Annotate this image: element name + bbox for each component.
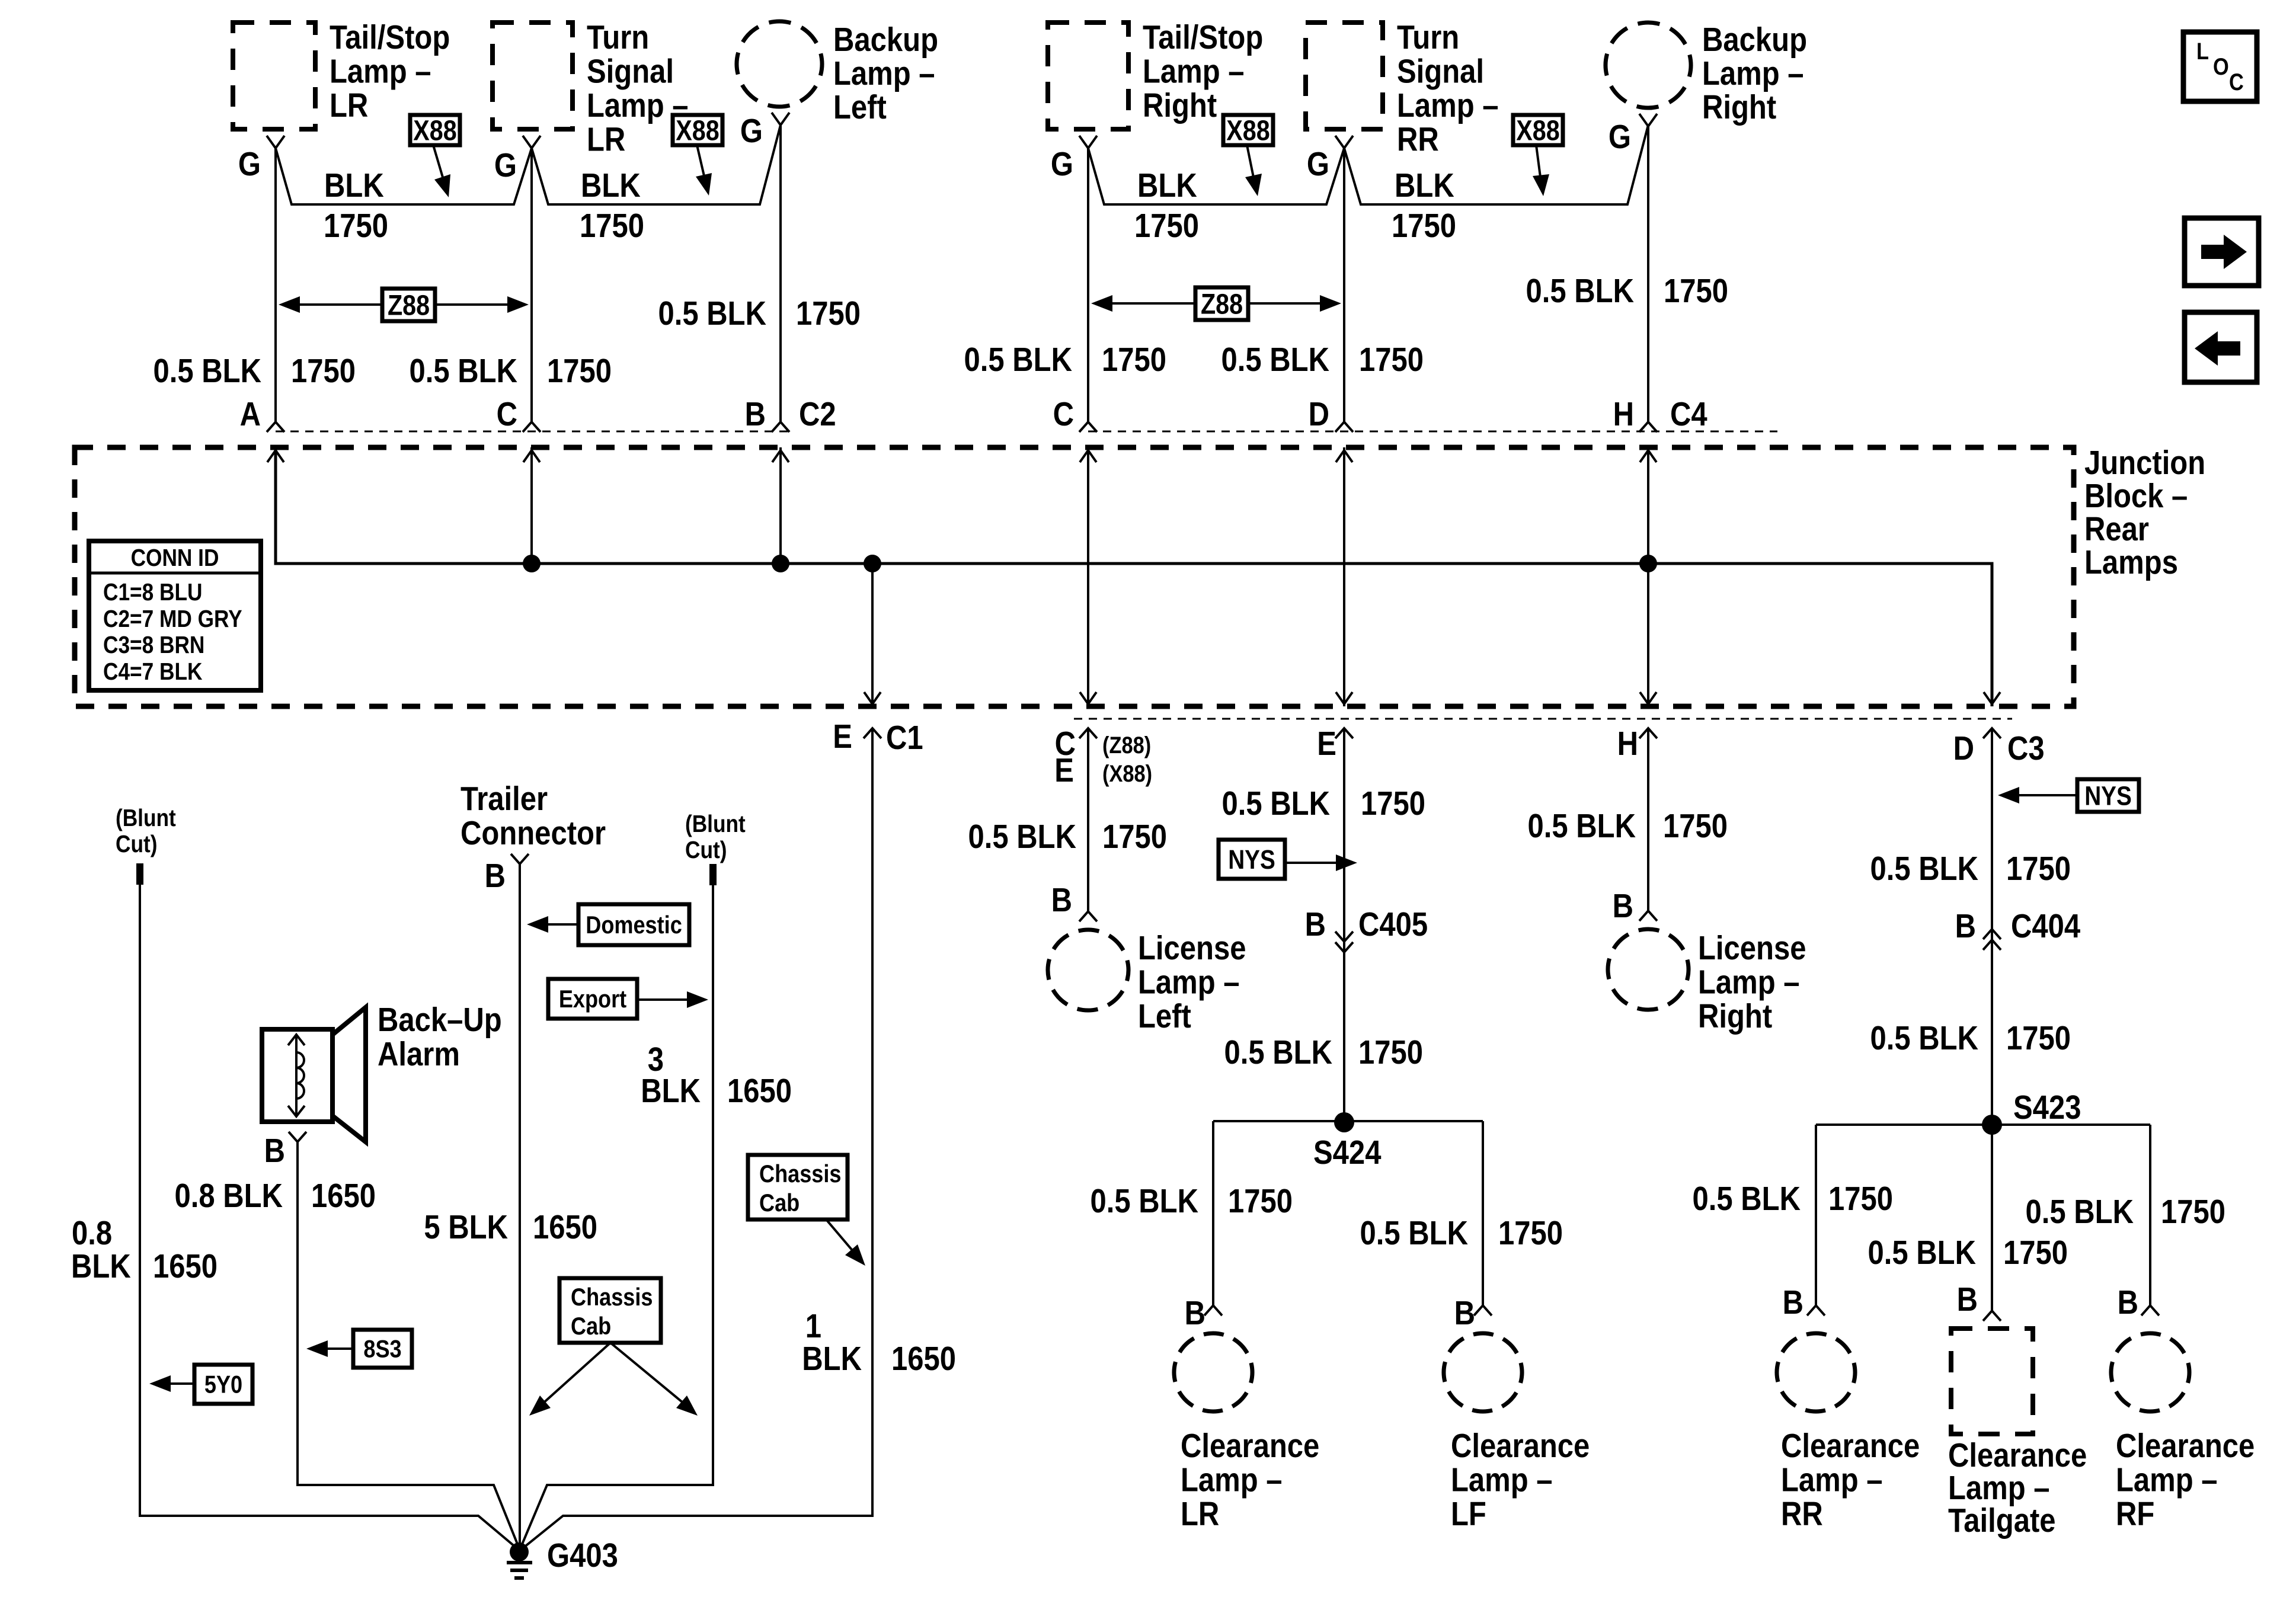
svg-text:0.5 BLK: 0.5 BLK (2026, 1193, 2134, 1231)
svg-text:1750: 1750 (2161, 1193, 2225, 1231)
pin C label (bottom, license left) (1055, 725, 1076, 763)
svg-text:0.5 BLK: 0.5 BLK (658, 295, 766, 332)
svg-text:1750: 1750 (1228, 1183, 1293, 1220)
label BLK (segment 2) (581, 167, 641, 204)
pin H label (1613, 396, 1634, 433)
svg-text:NYS: NYS (2084, 781, 2132, 811)
svg-text:Left: Left (1138, 998, 1191, 1035)
svg-text:Z88: Z88 (388, 289, 430, 321)
pin B label (license right) (1613, 888, 1633, 925)
svg-text:0.5 BLK: 0.5 BLK (1360, 1215, 1468, 1252)
svg-text:B: B (1783, 1284, 1803, 1321)
svg-text:B: B (1051, 882, 1072, 919)
svg-text:1750: 1750 (547, 353, 612, 390)
5Y0 box (194, 1365, 252, 1404)
lamp box Clearance Lamp - Tailgate (1951, 1329, 2033, 1434)
NYS box left (1219, 840, 1285, 879)
connector line C2 (thin dashed) (276, 431, 789, 433)
pin G label (Tail/Stop Right) (1051, 146, 1073, 183)
pin B label (C405) (1305, 906, 1326, 943)
wire E C1 drop inside block (871, 564, 874, 706)
svg-text:Lamp –: Lamp – (1181, 1461, 1283, 1499)
wire 0.8 BLK 1650 blunt cut left (140, 885, 519, 1550)
up arrow into block (wire D) (1336, 450, 1352, 462)
svg-text:Backup: Backup (1702, 21, 1807, 59)
wire 1 BLK 1650 from C1 to ground (520, 728, 872, 1550)
pin B chevron (clearance tailgate) (1983, 1311, 2001, 1321)
svg-text:G: G (1307, 146, 1329, 183)
label 0.8 BLK (blunt left) (71, 1215, 131, 1285)
pin chevron C/E license left (1079, 728, 1097, 738)
Chassis Cab center arrow right (610, 1343, 698, 1416)
svg-text:Right: Right (1698, 998, 1772, 1035)
Z88 arrow right to wire D (1248, 295, 1341, 312)
label 1750 (license left) (1102, 818, 1167, 856)
label 1750 (wire C3 upper) (2006, 850, 2071, 888)
svg-text:Turn: Turn (1397, 19, 1459, 56)
svg-text:E: E (1054, 752, 1074, 789)
label BLK (segment 4) (1395, 167, 1454, 204)
pin E label (bottom, wire D) (1317, 725, 1336, 763)
lamp box Tail/Stop Lamp - LR (233, 23, 315, 129)
svg-text:Clearance: Clearance (1948, 1437, 2087, 1474)
down arrow out of block (wire D) (1336, 692, 1352, 704)
label 1750 (clearance LR) (1228, 1183, 1293, 1220)
lamp circle Backup Lamp - Left (728, 12, 832, 116)
svg-text:Lamp –: Lamp – (833, 55, 935, 92)
svg-text:X88: X88 (1516, 114, 1559, 146)
label Clearance Lamp - Tailgate (1948, 1437, 2087, 1539)
svg-text:BLK: BLK (802, 1340, 862, 1378)
svg-text:1: 1 (805, 1308, 821, 1345)
label 1 BLK (C1 wire) (802, 1308, 862, 1378)
svg-text:L: L (2196, 38, 2209, 65)
svg-text:Junction: Junction (2084, 444, 2205, 482)
connector C3 label (2007, 730, 2045, 767)
pin chevron E C1 (864, 728, 881, 738)
svg-text:Back–Up: Back–Up (378, 1001, 502, 1039)
connector C2 label (799, 396, 836, 433)
up arrow into block (wire H) (1640, 450, 1657, 462)
svg-text:License: License (1698, 930, 1806, 967)
svg-text:1750: 1750 (1828, 1180, 1893, 1218)
svg-text:1750: 1750 (580, 207, 644, 245)
label 0.5 BLK (below C404) (1870, 1020, 1978, 1057)
NYS arrow right box (1998, 787, 2077, 804)
label BLK (segment 3) (1137, 167, 1197, 204)
label BLK (segment 1) (324, 167, 384, 204)
svg-text:0.5 BLK: 0.5 BLK (1091, 1183, 1198, 1220)
label 0.5 BLK (clearance LF) (1360, 1215, 1468, 1252)
label 0.5 BLK (wire B) (658, 295, 766, 332)
svg-text:Clearance: Clearance (2116, 1427, 2255, 1465)
lamp box Turn Signal Lamp - LR (493, 23, 573, 129)
svg-text:Lamp –: Lamp – (1397, 87, 1499, 124)
svg-text:1750: 1750 (2003, 1234, 2068, 1272)
Chassis Cab right arrow (826, 1219, 865, 1266)
lamp circle Clearance Lamp - LR (1166, 1325, 1261, 1420)
wire license lamp left (1087, 728, 1089, 911)
svg-text:0.8 BLK: 0.8 BLK (175, 1177, 283, 1215)
svg-text:Cut): Cut) (685, 837, 727, 864)
pin C label (junction top) (497, 396, 517, 433)
wire BLK 1750 segment Tail/Stop Right to Turn RR (1088, 148, 1344, 204)
junction dot E-C1 / bus (864, 555, 881, 572)
pin C chevron (right group) (1079, 422, 1097, 432)
svg-text:G: G (1609, 119, 1631, 156)
label S424 (1313, 1134, 1382, 1172)
wire BLK 1750 segment Turn RR to Backup Right (1344, 125, 1648, 204)
label 1750 (wire B) (796, 295, 861, 332)
label Junction Block - Rear Lamps (2084, 444, 2205, 581)
label 1750 (wire C top-left) (547, 353, 612, 390)
Domestic arrow (527, 916, 578, 933)
wire 0.5 BLK 1750 from Tail/Stop Right pin G (1087, 148, 1089, 422)
svg-text:S423: S423 (2013, 1089, 2081, 1126)
wire B inside block (779, 447, 782, 564)
svg-text:0.5 BLK: 0.5 BLK (1870, 850, 1978, 888)
wire S423 horizontal (1816, 1124, 2150, 1126)
lamp circle License Lamp - Right (1600, 921, 1697, 1019)
wire C inside block (530, 447, 533, 564)
svg-text:B: B (1454, 1295, 1475, 1332)
label 0.5 BLK (license right) (1528, 808, 1636, 845)
svg-text:H: H (1613, 396, 1634, 433)
wire C pass-through inside block (right group) (1087, 447, 1089, 706)
ground G403 symbol (507, 1542, 532, 1578)
svg-text:C404: C404 (2011, 908, 2081, 945)
blunt cut tick right (709, 864, 717, 885)
connector C404 label (2011, 908, 2081, 945)
svg-text:Signal: Signal (587, 53, 674, 90)
svg-text:Alarm: Alarm (378, 1036, 460, 1073)
label 1750 (segment 1) (324, 207, 388, 245)
pin B label (clearance LR) (1185, 1295, 1205, 1332)
label 0.5 BLK (license left) (968, 818, 1076, 856)
pin B label (clearance RF) (2118, 1284, 2138, 1321)
label 1750 (segment 4) (1392, 207, 1456, 245)
label (Blunt Cut) right (685, 811, 746, 864)
label 1650 (trailer) (533, 1209, 597, 1246)
svg-text:Left: Left (833, 89, 887, 126)
svg-text:Clearance: Clearance (1181, 1427, 1319, 1465)
pin B chevron (clearance LR) (1204, 1305, 1222, 1315)
Export arrow (637, 991, 708, 1008)
X88 box 4 (1513, 114, 1563, 146)
svg-text:1750: 1750 (1664, 273, 1728, 310)
pin D label (bottom) (1953, 730, 1974, 767)
svg-text:Block –: Block – (2084, 478, 2188, 515)
connector line C1/C3 bottom (thin dashed) (1074, 718, 2012, 720)
wire clearance tailgate drop (1991, 1125, 1993, 1311)
svg-text:0.5 BLK: 0.5 BLK (1221, 341, 1329, 379)
label Clearance Lamp - RR (1781, 1427, 1920, 1533)
junction block dashed outline (75, 447, 2074, 706)
svg-text:1750: 1750 (1359, 341, 1424, 379)
label 1750 (wire E upper) (1361, 785, 1425, 822)
label Tail/Stop Lamp - LR (330, 19, 450, 124)
label 1750 (wire A) (291, 353, 356, 390)
svg-text:Rear: Rear (2084, 511, 2149, 548)
svg-text:Cab: Cab (759, 1190, 800, 1217)
svg-text:Lamp –: Lamp – (1948, 1470, 2050, 1507)
svg-text:1750: 1750 (1498, 1215, 1563, 1252)
wire 0.5 BLK 1750 from Backup Right pin G (1647, 126, 1649, 422)
label 3 BLK (blunt right) (641, 1041, 701, 1110)
pin A chevron (267, 422, 284, 432)
wire BLK 1750 segment Tail/Stop LR to Turn LR (276, 148, 532, 204)
svg-text:Chassis: Chassis (571, 1284, 653, 1311)
label 1750 (wire D) (1359, 341, 1424, 379)
wire 0.5 BLK 1750 from Turn LR pin G (530, 148, 533, 422)
down arrow out of block (wire C3) (1984, 692, 2000, 704)
down arrow out of block (wire H) (1640, 692, 1657, 704)
pin H label (bottom) (1617, 725, 1638, 763)
down arrow out of block (wire E C1) (864, 692, 881, 704)
label 1750 (license right) (1663, 808, 1728, 845)
label License Lamp - Right (1698, 930, 1806, 1035)
svg-text:A: A (240, 396, 261, 433)
wire 0.5 BLK 1750 from Backup Left pin G (779, 125, 782, 422)
label (Blunt Cut) left (116, 805, 176, 858)
lamp circle Clearance Lamp - LF (1435, 1325, 1530, 1420)
svg-text:Export: Export (559, 986, 626, 1013)
svg-text:Lamp –: Lamp – (1138, 964, 1240, 1001)
svg-text:Lamp –: Lamp – (1451, 1461, 1553, 1499)
X88 box 1 (410, 114, 460, 146)
svg-text:X88: X88 (1226, 114, 1269, 146)
label Turn Signal Lamp - LR (587, 19, 689, 159)
svg-text:Cab: Cab (571, 1313, 611, 1340)
LOC icon box (2183, 32, 2257, 101)
svg-text:B: B (1185, 1295, 1205, 1332)
svg-text:RF: RF (2116, 1496, 2154, 1533)
label License Lamp - Left (1138, 930, 1246, 1035)
svg-text:D: D (1953, 730, 1974, 767)
svg-text:0.5 BLK: 0.5 BLK (1693, 1180, 1801, 1218)
pin H chevron (1639, 422, 1657, 432)
svg-text:C405: C405 (1358, 906, 1428, 943)
label 1750 (below C404) (2006, 1020, 2071, 1057)
pin B label (clearance tailgate) (1957, 1281, 1978, 1318)
pin B label (license left) (1051, 882, 1072, 919)
label 1750 (clearance RR) (1828, 1180, 1893, 1218)
svg-text:Chassis: Chassis (759, 1161, 841, 1188)
svg-text:BLK: BLK (324, 167, 384, 204)
wire C3 to S423 (1991, 728, 1993, 1125)
svg-text:(Z88): (Z88) (1102, 732, 1151, 758)
Chassis Cab box right (748, 1155, 848, 1219)
svg-text:1650: 1650 (727, 1073, 792, 1110)
svg-text:0.5 BLK: 0.5 BLK (968, 818, 1076, 856)
label 0.5 BLK (wire D) (1221, 341, 1329, 379)
wire clearance RR drop (1815, 1125, 1817, 1305)
label S423 (2013, 1089, 2081, 1126)
svg-text:G: G (238, 146, 261, 183)
NYS arrow left box (1285, 854, 1357, 871)
wire E to S424 (1343, 728, 1345, 1121)
wire clearance RF drop (2149, 1125, 2151, 1305)
svg-text:Lamp –: Lamp – (1698, 964, 1800, 1001)
svg-text:Z88: Z88 (1201, 288, 1243, 320)
svg-text:X88: X88 (413, 114, 456, 146)
svg-text:B: B (2118, 1284, 2138, 1321)
svg-text:5Y0: 5Y0 (204, 1371, 242, 1398)
svg-text:1750: 1750 (1392, 207, 1456, 245)
svg-text:B: B (1305, 906, 1326, 943)
pin G chevron (Tail/Stop LR) (267, 136, 284, 148)
pin B chevron (772, 422, 789, 432)
svg-text:Lamp –: Lamp – (1781, 1461, 1883, 1499)
junction dot wire B / bus (772, 555, 789, 572)
lamp box Turn Signal Lamp - RR (1306, 23, 1383, 129)
svg-text:C2: C2 (799, 396, 836, 433)
Z88 arrow left to wire A (279, 296, 382, 313)
label Clearance Lamp - LR (1181, 1427, 1319, 1533)
svg-text:Trailer: Trailer (461, 780, 548, 818)
label (X88) (1102, 760, 1152, 787)
svg-text:G403: G403 (547, 1537, 618, 1574)
svg-text:1750: 1750 (1663, 808, 1728, 845)
svg-text:1750: 1750 (2006, 1020, 2071, 1057)
svg-text:B: B (1957, 1281, 1978, 1318)
label 1750 (wire H) (1664, 273, 1728, 310)
connector C4 label (1670, 396, 1707, 433)
label Back-Up Alarm (378, 1001, 502, 1073)
label 0.5 BLK (below C405) (1224, 1034, 1332, 1071)
svg-text:G: G (494, 147, 517, 184)
svg-text:Right: Right (1143, 87, 1217, 124)
pin G chevron (Tail/Stop Right) (1079, 136, 1097, 148)
label 0.8 BLK (alarm) (175, 1177, 283, 1215)
blunt cut tick left (136, 863, 143, 885)
label Backup Lamp - Right (1702, 21, 1807, 126)
Domestic box (578, 904, 689, 945)
svg-text:(Blunt: (Blunt (116, 805, 176, 832)
connector C405 double chevron (1335, 932, 1353, 942)
connector C1 label (886, 719, 923, 757)
NYS box right (2077, 779, 2139, 812)
svg-text:LF: LF (1451, 1496, 1486, 1533)
pin G label (Turn LR) (494, 147, 517, 184)
svg-text:0.8: 0.8 (72, 1215, 112, 1252)
X88 arrow 3 (1245, 145, 1262, 196)
Z88 arrow right to wire C (435, 296, 529, 313)
wire 5 BLK 1650 trailer connector to ground (519, 864, 521, 1552)
CONN ID table box (89, 541, 261, 690)
svg-text:Tail/Stop: Tail/Stop (1143, 19, 1263, 56)
pin B label (C404) (1955, 908, 1976, 945)
splice S424 dot (1334, 1112, 1354, 1132)
pin G chevron (Turn LR) (523, 136, 541, 148)
label 1650 (blunt right) (727, 1073, 792, 1110)
pin E label (bottom, license left) (1054, 752, 1074, 789)
X88 arrow 1 (433, 145, 450, 197)
pin B label (clearance RR) (1783, 1284, 1803, 1321)
svg-text:Lamp –: Lamp – (330, 53, 431, 90)
svg-text:0.5 BLK: 0.5 BLK (1528, 808, 1636, 845)
8S3 box (353, 1330, 412, 1368)
splice S423 dot (1982, 1115, 2002, 1135)
svg-text:C: C (497, 396, 517, 433)
label Backup Lamp - Left (833, 21, 938, 126)
label Clearance Lamp - LF (1451, 1427, 1590, 1533)
wire clearance LR drop (1212, 1121, 1214, 1305)
Z88 arrow left to wire C (1091, 295, 1195, 312)
svg-text:E: E (833, 718, 852, 756)
label 1650 (alarm) (311, 1177, 376, 1215)
wire 0.8 BLK 1650 alarm to ground (298, 1142, 519, 1548)
X88 arrow 4 (1533, 145, 1549, 196)
8S3 arrow (306, 1340, 353, 1357)
wire H pass-through inside block (1647, 447, 1649, 706)
svg-text:Right: Right (1702, 89, 1776, 126)
pin G label (Tail/Stop LR) (238, 146, 261, 183)
svg-text:(X88): (X88) (1102, 760, 1152, 787)
svg-text:C1=8 BLU: C1=8 BLU (103, 579, 202, 606)
label 0.5 BLK (wire C right group) (964, 341, 1072, 379)
svg-text:0.5 BLK: 0.5 BLK (410, 353, 517, 390)
pin G chevron (Turn RR) (1335, 136, 1353, 148)
up arrow into block (wire B) (772, 450, 789, 462)
label Clearance Lamp - RF (2116, 1427, 2255, 1533)
pin E label (C1) (833, 718, 852, 756)
svg-text:C4=7 BLK: C4=7 BLK (103, 658, 203, 686)
Chassis Cab box center (559, 1278, 661, 1343)
svg-text:1650: 1650 (891, 1340, 956, 1378)
X88 box 3 (1223, 114, 1273, 146)
pin G label (Turn RR) (1307, 146, 1329, 183)
svg-text:1750: 1750 (291, 353, 356, 390)
pin B chevron (alarm) (289, 1132, 306, 1142)
svg-text:G: G (740, 113, 763, 150)
label 0.5 BLK (wire C top-left) (410, 353, 517, 390)
svg-text:E: E (1317, 725, 1336, 763)
pin D label (1309, 396, 1329, 433)
svg-text:H: H (1617, 725, 1638, 763)
connector C405 label (1358, 906, 1428, 943)
wire S424 horizontal (1213, 1120, 1483, 1122)
svg-text:RR: RR (1781, 1496, 1823, 1533)
svg-text:1750: 1750 (2006, 850, 2071, 888)
svg-text:0.5 BLK: 0.5 BLK (1868, 1234, 1976, 1272)
svg-text:CONN ID: CONN ID (131, 545, 219, 572)
label 0.5 BLK (wire A) (154, 353, 261, 390)
svg-text:C: C (2229, 69, 2244, 95)
svg-text:Cut): Cut) (116, 831, 157, 858)
pin B label (trailer) (485, 857, 506, 895)
junction dot wire C / bus (523, 555, 541, 572)
label Trailer Connector (461, 780, 606, 852)
label 1750 (clearance RF) (2161, 1193, 2225, 1231)
svg-text:1750: 1750 (1361, 785, 1425, 822)
pin chevron H bottom (1639, 728, 1657, 738)
bus wire inside junction block (A to C3) (276, 447, 1992, 706)
label Tail/Stop Lamp - Right (1143, 19, 1263, 124)
pin A label (240, 396, 261, 433)
svg-text:0.5 BLK: 0.5 BLK (1224, 1034, 1332, 1071)
label 5 BLK (trailer) (424, 1209, 508, 1246)
svg-text:0.5 BLK: 0.5 BLK (1222, 785, 1330, 822)
Chassis Cab center arrow left (529, 1343, 610, 1416)
pin B chevron (clearance LF) (1474, 1305, 1492, 1315)
svg-text:5 BLK: 5 BLK (424, 1209, 508, 1246)
svg-text:LR: LR (1181, 1496, 1219, 1533)
pin G label (Backup Left) (740, 113, 763, 150)
pin G label (Backup Right) (1609, 119, 1631, 156)
svg-text:C3: C3 (2007, 730, 2045, 767)
pin C label (right group) (1053, 396, 1074, 433)
